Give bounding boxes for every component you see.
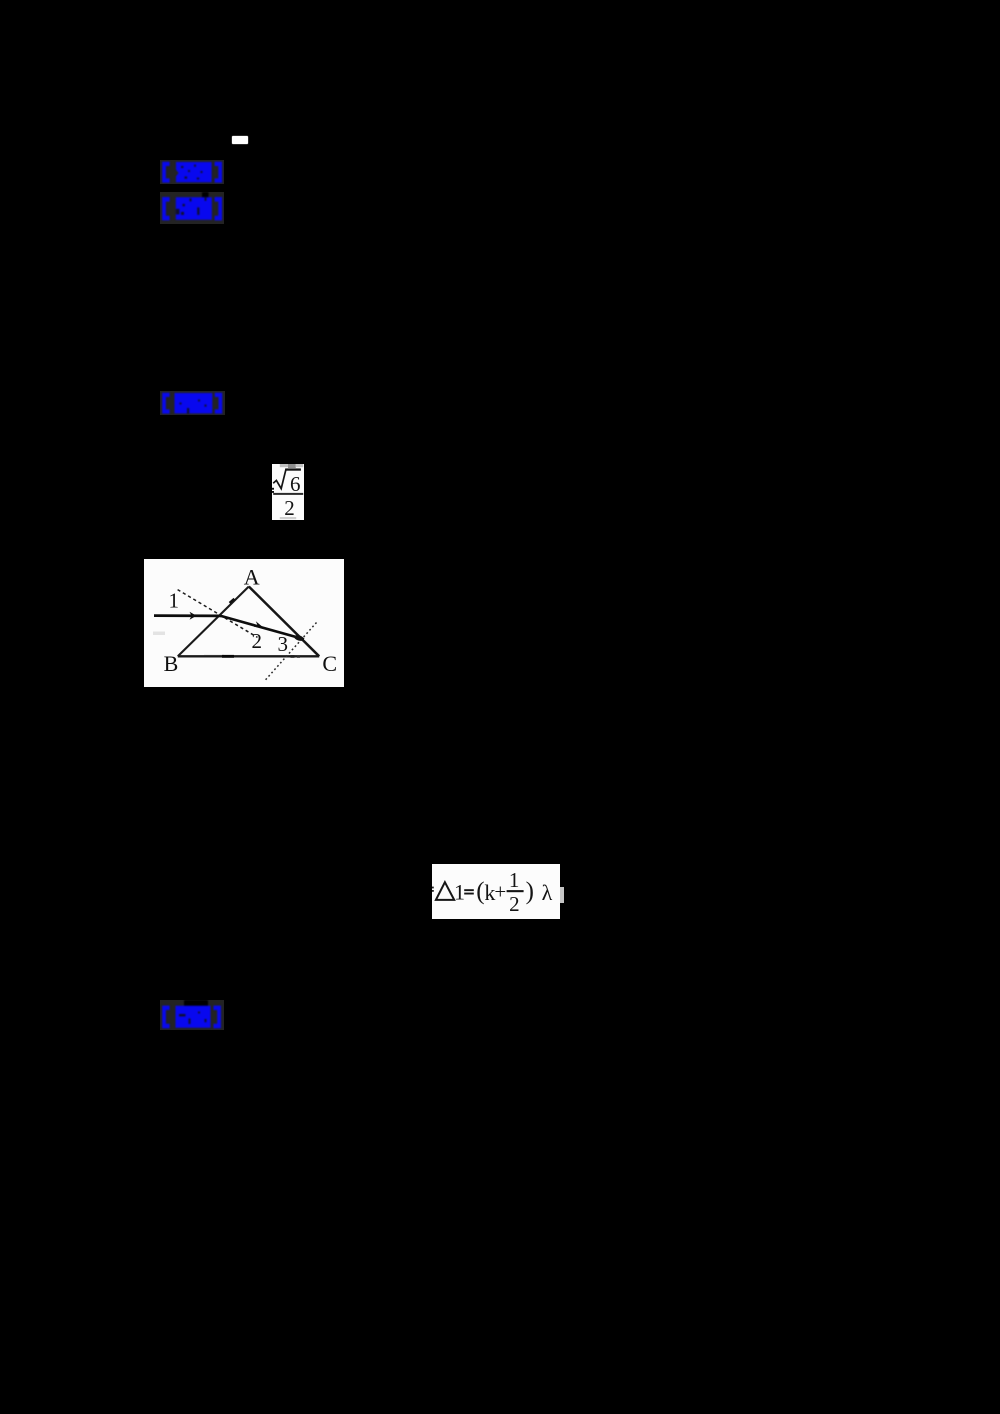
label box 点评: [160, 1000, 224, 1030]
gray smudge top: [280, 464, 288, 467]
incident ray (horizontal): [154, 614, 221, 617]
svg-text:λ: λ: [542, 880, 553, 905]
darker retrace on base: [222, 654, 234, 657]
refracted ray inside prism: [220, 615, 304, 638]
white dash near top: [232, 136, 248, 145]
arrowhead on incident ray: [190, 611, 197, 619]
gray patch right of delta formula: [560, 887, 564, 903]
svg-text:(: (: [477, 878, 485, 905]
svg-text:C: C: [322, 651, 337, 676]
svg-text:3: 3: [278, 632, 289, 656]
stray dots on base near crossing: [291, 655, 295, 658]
leftover ticks at left edge: [432, 886, 434, 888]
junction blob at exit point: [293, 634, 304, 642]
svg-text:1: 1: [509, 868, 520, 892]
svg-text:A: A: [244, 564, 260, 589]
svg-text:B: B: [164, 651, 179, 676]
fraction bar: [273, 492, 303, 494]
svg-text:2: 2: [509, 892, 519, 916]
triangle base B-C: [178, 655, 319, 657]
arrowhead on refracted ray: [254, 621, 264, 627]
triangle edge A-C: [249, 586, 319, 656]
label box 详解: [160, 391, 225, 416]
svg-text:2: 2: [252, 628, 263, 652]
faint smudge left: [153, 631, 165, 635]
svg-text:6: 6: [290, 471, 301, 495]
triangle Delta outline: [436, 882, 454, 900]
radical sign: [273, 469, 301, 488]
gray smudge bottom: [280, 517, 296, 519]
formula delta white box: [432, 864, 560, 920]
svg-text:1: 1: [454, 879, 465, 904]
dotted normal at exit face: [265, 622, 317, 681]
label box 分析: [160, 192, 224, 223]
leftover equals ticks at left edge: [272, 487, 274, 489]
svg-text:+: +: [495, 879, 507, 903]
svg-text:): ): [526, 878, 534, 905]
svg-text:1: 1: [169, 588, 180, 612]
formula sqrt(6)/2 white box: [272, 464, 304, 520]
label box 答案: [160, 160, 224, 184]
triangle edge A-B: [178, 586, 249, 656]
dashed normal line 1 (upper-left to lower-right): [178, 589, 258, 637]
small tick on edge AB: [230, 598, 235, 602]
svg-text:2: 2: [284, 495, 295, 519]
prism figure white box: [144, 559, 344, 687]
